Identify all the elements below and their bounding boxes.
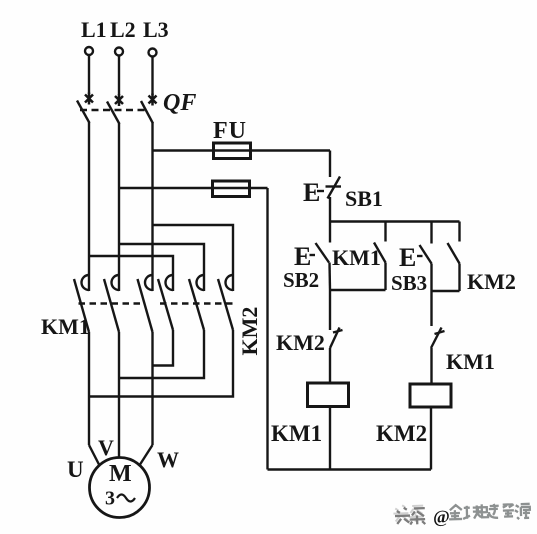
breaker QF linkage dashed [80, 109, 148, 111]
contactor KM2 pole2 contact [197, 265, 205, 291]
svg-text:KM2: KM2 [467, 269, 516, 294]
svg-text:FU: FU [213, 118, 247, 144]
fuse FU2 body [213, 181, 250, 197]
coil KM2 [410, 384, 451, 407]
wire KM2 pole1 to phase3 out [153, 330, 174, 366]
wire SB2 top stub [329, 222, 331, 243]
fuse FU1 body [214, 143, 251, 159]
svg-text:L2: L2 [110, 17, 136, 42]
contact KM1 aux stub [384, 222, 386, 242]
contact KM2 aux stub [458, 222, 460, 242]
contact KM2 interlock bar [333, 330, 343, 333]
wire left control rail [266, 188, 268, 470]
button SB3 actuator link [417, 255, 423, 257]
breaker QF pole 1 blade [77, 101, 90, 124]
wire SB3 branch down [430, 291, 432, 326]
contact KM2 aux blade [448, 243, 460, 264]
svg-text:KM1: KM1 [332, 245, 381, 270]
motor lead U diagonal [89, 445, 99, 465]
svg-text:E: E [399, 243, 416, 272]
wire L1 drop to QF [88, 55, 90, 94]
button SB2 blade [316, 243, 330, 263]
wire SB2 parallel join [330, 289, 386, 291]
wire SB2 bottom [328, 263, 331, 291]
wire KM2 pole3 to phase1 out [89, 330, 233, 397]
wire phase3 crossover to KM2 pole3 [153, 225, 234, 265]
svg-text:QF: QF [163, 90, 196, 116]
svg-text:KM2: KM2 [376, 421, 427, 446]
coil KM1 [308, 383, 349, 407]
wire L2 drop to QF [118, 56, 120, 96]
wire coil KM1 to bottom [329, 407, 331, 470]
watermark [393, 501, 530, 528]
svg-text:KM1: KM1 [271, 421, 322, 446]
wm char yuan [515, 504, 530, 519]
wire phase2 crossover to KM2 pole2 [119, 244, 204, 265]
contactor linkage dashed [79, 302, 234, 304]
terminal L1 [85, 47, 93, 55]
contactor KM2 pole1 contact [166, 265, 174, 291]
wire phase2 QF to KM1 contact [118, 124, 120, 266]
svg-text:W: W [157, 447, 179, 472]
wire KM1 pole1 down [88, 332, 90, 445]
wm char tou [395, 508, 410, 524]
wire SB3 top stub [430, 222, 432, 244]
wm char qiu [463, 505, 481, 519]
svg-text:KM2: KM2 [237, 307, 262, 356]
svg-text:SB2: SB2 [283, 268, 319, 292]
contactor KM1 pole1 contact [82, 265, 89, 291]
svg-text:L1: L1 [81, 17, 107, 42]
breaker QF pole 1 cross [85, 93, 93, 105]
wm char tiao [410, 508, 425, 524]
contactor KM1 pole3 contact [145, 265, 153, 291]
wm char quan [449, 505, 462, 519]
wire KM2 interlock to coil [329, 348, 331, 383]
contact KM1 interlock bar [435, 331, 445, 334]
svg-text:L3: L3 [143, 17, 169, 42]
wire bottom control bus [268, 468, 432, 470]
wire KM2 aux bottom [458, 264, 460, 292]
button SB3 blade [420, 245, 432, 264]
wm char dian [478, 504, 488, 517]
terminal L3 [149, 49, 157, 57]
contact KM1 interlock blade [431, 328, 442, 349]
wire phase1 crossover to KM2 pole1 [89, 256, 173, 265]
svg-text:3: 3 [105, 488, 115, 510]
button SB1 NC bar [326, 185, 342, 187]
svg-text:KM1: KM1 [41, 314, 90, 339]
wire phase3 QF to KM1 contact [151, 123, 153, 265]
wire SB1 bottom [329, 197, 331, 222]
wire SB1 drop [329, 151, 331, 178]
wire KM1 interlock to coil [430, 348, 432, 384]
wm char zi [503, 504, 514, 516]
wire KM1 pole2 down [118, 332, 120, 458]
svg-text:@: @ [433, 506, 450, 527]
wire phase2 branch to fuse2 [119, 187, 268, 189]
svg-text:E: E [303, 178, 320, 207]
wire SB2 branch down [329, 290, 331, 330]
contact KM2 interlock blade [330, 328, 340, 349]
button SB1 blade [328, 177, 341, 199]
wire phase1 QF to KM1 contact [88, 123, 90, 266]
wire KM1 pole3 down [151, 332, 153, 445]
wire coil KM2 to bottom [430, 407, 432, 470]
motor M circle [90, 458, 150, 518]
wire KM1 aux bottom [384, 263, 386, 291]
svg-text:E: E [294, 242, 311, 271]
svg-text:SB1: SB1 [345, 186, 383, 211]
button SB2 actuator link [310, 254, 316, 256]
svg-text:V: V [98, 435, 114, 460]
terminal L2 [115, 48, 123, 56]
wire SB3 parallel join [432, 290, 460, 292]
contactor KM2 pole3 contact [226, 265, 234, 291]
wire L3 drop to QF [151, 57, 153, 96]
svg-text:SB3: SB3 [391, 271, 427, 295]
contactor KM1 pole2 contact [112, 265, 119, 291]
wire control bus [330, 220, 460, 222]
motor lead W diagonal [140, 445, 153, 465]
breaker QF pole 3 cross [149, 94, 157, 106]
svg-text:M: M [109, 461, 132, 487]
wire KM2 pole2 to phase2 out [119, 330, 204, 378]
svg-text:U: U [67, 457, 84, 482]
contact KM1 aux blade [374, 243, 386, 263]
breaker QF pole 2 blade [107, 102, 120, 125]
breaker QF pole 2 cross [115, 94, 123, 106]
button SB1 actuator link [317, 190, 324, 192]
svg-text:KM2: KM2 [276, 330, 325, 355]
wire SB3 bottom [430, 264, 432, 292]
breaker QF pole 3 blade [141, 101, 153, 124]
wire phase3 branch to fuse1 [153, 149, 331, 151]
wm char qi [489, 504, 499, 518]
svg-text:KM1: KM1 [446, 349, 495, 374]
